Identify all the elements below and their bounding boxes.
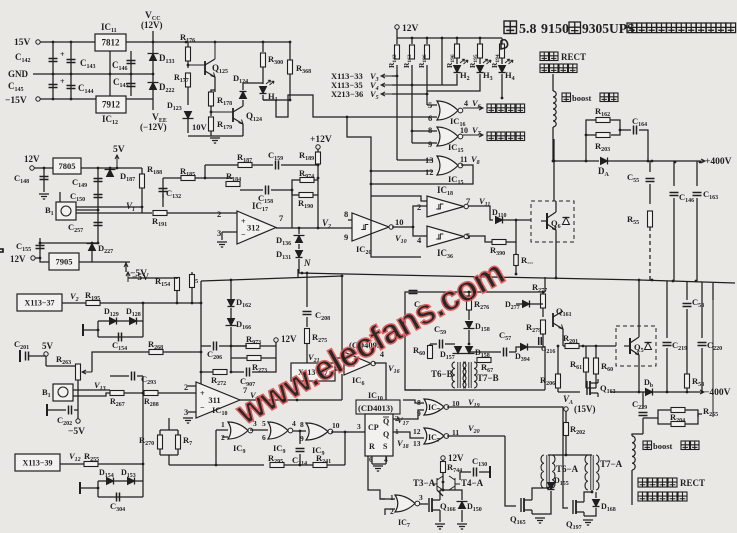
svg-text:C148: C148: [14, 173, 29, 185]
arrow -5V: [124, 263, 128, 272]
wire C257 rail: [97, 210, 99, 243]
wire R55 down dashed: [649, 227, 651, 280]
svg-text:3: 3: [184, 407, 188, 417]
regulator 7905: [49, 253, 79, 270]
svg-text:3: 3: [419, 493, 423, 502]
capacitor C143: [67, 60, 76, 63]
zener D157: [453, 347, 464, 354]
svg-text:−15V: −15V: [5, 96, 27, 106]
wire D124 link: [243, 82, 263, 84]
wire fb net: [291, 195, 293, 228]
wire R268 left: [92, 352, 149, 372]
wire B1 rail: [59, 192, 61, 210]
wire C163 down: [696, 198, 698, 281]
wire Q124 emit: [242, 124, 244, 136]
resistor R277: [541, 294, 546, 308]
svg-text:(−12V): (−12V): [140, 122, 167, 132]
ground Q195: [535, 518, 545, 523]
wire D277 left: [516, 303, 522, 305]
svg-text:6: 6: [262, 433, 266, 442]
svg-text:D158: D158: [475, 322, 490, 333]
wire osc fb: [216, 429, 228, 431]
resistor R194: [500, 44, 505, 58]
resistor R142: [395, 45, 400, 59]
wire R176 lead: [187, 42, 189, 47]
svg-text:D187: D187: [120, 171, 135, 183]
svg-text:V10: V10: [395, 233, 407, 245]
wire IC4 out: [392, 226, 413, 228]
svg-text:C143: C143: [80, 58, 96, 70]
wire C149 rail: [97, 168, 99, 210]
svg-text:V17: V17: [397, 415, 410, 427]
svg-text:boost: boost: [572, 93, 592, 103]
wire H1-R368 join: [263, 99, 290, 101]
regulator 7805: [53, 158, 81, 174]
wire pair l2: [658, 418, 671, 424]
svg-text:−5V: −5V: [68, 427, 85, 437]
capacitor C146b: [670, 193, 679, 196]
wire IC9a out: [250, 429, 268, 431]
wire R201 out: [579, 345, 616, 347]
resistor R154: [175, 278, 180, 291]
svg-text:B1: B1: [45, 205, 54, 217]
wire 311b-IC6: [341, 374, 343, 400]
svg-text:2: 2: [217, 209, 221, 219]
capacitor C163: [693, 193, 702, 196]
wire clamp2 gnd: [80, 487, 98, 489]
svg-text:V18: V18: [397, 438, 409, 450]
ground Q166: [435, 524, 445, 529]
wire D187: [109, 168, 111, 169]
wire coil to bus: [552, 127, 554, 161]
svg-text:12V: 12V: [24, 154, 40, 164]
wire Q195 src: [532, 491, 551, 514]
svg-text:V8: V8: [471, 154, 480, 166]
wire R206 to Q163: [558, 391, 580, 393]
transformer T6-A: [541, 455, 555, 488]
svg-text:R188: R188: [147, 164, 162, 176]
wire Q161 base: [542, 308, 544, 317]
resistor R273: [247, 356, 261, 361]
svg-text:10: 10: [460, 126, 468, 135]
wire pin3: [222, 231, 237, 233]
wire out IC17: [276, 227, 346, 229]
resistor R127: [186, 73, 191, 87]
wire R194 lead: [501, 38, 503, 44]
wire bus after DA: [608, 160, 700, 162]
wire C155 rail: [39, 238, 41, 258]
scan artifact left edge: [0, 249, 3, 252]
capacitor C132: [159, 189, 168, 192]
wire ff to IC7c: [368, 456, 385, 499]
resistor R390: [492, 240, 506, 245]
resistor Rdots: [514, 255, 519, 266]
capacitor C219: [663, 343, 672, 346]
svg-text:7805: 7805: [59, 161, 76, 171]
zener D158b: [464, 347, 475, 354]
svg-text:R300: R300: [268, 54, 283, 66]
svg-text:IC12: IC12: [102, 114, 118, 126]
box around CD4013 label: [356, 400, 400, 414]
wire right edge v1: [712, 300, 714, 417]
wire R194 right: [314, 179, 318, 181]
wire Q125 emit: [214, 77, 216, 92]
svg-text:R255: R255: [703, 406, 718, 418]
wire R206 bot: [557, 388, 559, 392]
svg-text:C130: C130: [472, 456, 487, 468]
wire VA lead: [565, 411, 567, 422]
wire N right frame: [544, 277, 546, 292]
wire edge drop above: [712, 283, 714, 300]
wire Vcc drop: [152, 31, 154, 42]
wire R973 out: [260, 345, 276, 347]
label CJK zheng boost: [562, 93, 571, 102]
svg-text:H3: H3: [483, 70, 493, 82]
capacitor C150: [94, 195, 103, 198]
diode Q5 body: [645, 343, 652, 350]
wire pair out: [698, 414, 702, 417]
arrow -400V: [696, 390, 704, 394]
svg-text:N: N: [303, 258, 311, 268]
capacitor C142: [49, 59, 58, 62]
wire R288 out: [158, 392, 201, 394]
resistor R195: [478, 44, 483, 58]
svg-text:C208: C208: [315, 310, 330, 322]
resistor R300: [261, 53, 266, 67]
IGBT Q6: [541, 209, 556, 233]
capacitor C148: [40, 177, 49, 180]
resistor R272: [213, 370, 227, 375]
LED H2: [454, 66, 461, 73]
wire div bot r: [177, 449, 179, 455]
resistor R189: [316, 152, 321, 164]
wire C219 bot: [666, 348, 668, 392]
svg-text:D394: D394: [515, 352, 530, 363]
ground bar C201: [19, 350, 21, 362]
wire R178-Q124: [210, 106, 212, 116]
diode D168: [593, 500, 600, 507]
wire C202: [47, 409, 66, 411]
svg-text:V2: V2: [70, 291, 79, 303]
MOSFET Q166: [429, 496, 440, 514]
gate IC7c: [395, 495, 415, 512]
wire H2 feed: [412, 80, 457, 85]
svg-text:D277: D277: [505, 300, 520, 311]
wire mid rail: [109, 51, 111, 96]
wire Q125 base: [188, 64, 205, 66]
svg-text:RECT: RECT: [561, 52, 586, 62]
svg-text:C202: C202: [57, 415, 72, 427]
wire Q124 base: [211, 111, 233, 113]
wire 311b out: [240, 399, 342, 401]
wire R744 bot: [442, 472, 444, 490]
capacitor C57: [504, 348, 507, 357]
diode D150: [457, 502, 468, 509]
resistor R7: [176, 435, 181, 449]
wire Vcc rail down: [152, 42, 154, 99]
wire R188 lead: [141, 168, 143, 176]
svg-text:R7: R7: [183, 435, 192, 447]
title CJK tail: [627, 23, 736, 33]
wire C214 drop: [299, 431, 301, 444]
regulator IC12 7912: [96, 96, 126, 113]
resistor R295: [270, 463, 284, 468]
wire ff pin6: [371, 456, 373, 464]
svg-text:C257: C257: [68, 222, 83, 234]
svg-text:9150: 9150: [541, 22, 569, 37]
svg-text:10: 10: [395, 217, 404, 227]
wire R179 bot: [210, 131, 212, 136]
svg-text:C229: C229: [632, 399, 647, 411]
resistor R276: [467, 296, 472, 310]
svg-text:C159: C159: [268, 150, 283, 162]
svg-text:R60: R60: [413, 345, 425, 357]
svg-text:DA: DA: [598, 166, 610, 178]
svg-text:C57: C57: [499, 330, 511, 342]
resistor R267: [110, 391, 124, 396]
svg-text:C304: C304: [110, 501, 125, 513]
svg-text:R288: R288: [144, 397, 159, 408]
diode D155: [548, 483, 555, 490]
svg-text:H2: H2: [460, 70, 470, 82]
wire ff gnd: [372, 463, 386, 465]
resistor R203: [596, 133, 610, 138]
wire 5v drop: [45, 356, 47, 366]
wire inv frame: [371, 196, 421, 257]
arrow V5: [381, 92, 392, 96]
wire combo right: [639, 130, 648, 161]
resistor R163: [410, 45, 415, 59]
wire R189 lead: [317, 149, 319, 152]
wire R195 out: [100, 302, 201, 304]
terminal ring VA: [564, 407, 568, 411]
label CJK zhengchong: [487, 104, 525, 113]
wire clamp drop: [298, 228, 300, 234]
svg-text:+: +: [200, 389, 205, 398]
diode D131: [296, 251, 303, 258]
resistor R744: [441, 462, 446, 473]
svg-text:4: 4: [464, 99, 468, 108]
watermark www.elecfans.com: [230, 254, 511, 433]
wire B1b to R: [73, 393, 110, 396]
wire clamp2 up: [142, 393, 144, 464]
wire combo left: [586, 120, 596, 161]
label CJK laizi RECT bot: [638, 478, 677, 487]
capacitor C144: [67, 86, 76, 89]
svg-text:−: −: [200, 403, 205, 412]
zener D123: [183, 112, 194, 119]
LED H1: [260, 87, 267, 94]
svg-text:IC15: IC15: [448, 142, 463, 154]
svg-text:7912: 7912: [102, 100, 121, 110]
wire C146 down: [673, 198, 675, 281]
svg-text:IC6: IC6: [352, 375, 364, 387]
title figure number CJK tu: [504, 21, 517, 34]
svg-text:V16: V16: [388, 363, 400, 375]
svg-text:C146: C146: [679, 192, 694, 204]
diode D394: [521, 344, 528, 351]
wire boost top lead: [552, 74, 554, 91]
gate IC15b: [437, 156, 458, 175]
wire R191 out: [167, 212, 204, 214]
wire C130 left: [460, 472, 471, 480]
diode Db: [646, 389, 653, 396]
wire R390 out: [506, 220, 516, 242]
wire to C164: [620, 129, 631, 131]
svg-text:(12V): (12V): [141, 20, 163, 30]
gate IC6: [344, 352, 371, 375]
wire inv feed top: [413, 206, 427, 227]
wire C229 bot: [642, 418, 644, 434]
wire D227 rail: [91, 243, 93, 262]
wire cap rail3: [130, 51, 132, 96]
svg-text:C150: C150: [70, 191, 85, 203]
capacitor C220: [698, 343, 707, 346]
resistor R187: [238, 163, 252, 168]
wire div down: [168, 455, 170, 465]
wire R279 bot: [542, 334, 544, 346]
LED H3: [477, 66, 484, 73]
wire -5v top rail: [40, 242, 98, 244]
ground Q197: [583, 520, 593, 525]
terminal ring 5v b: [44, 352, 48, 356]
svg-text:+: +: [60, 77, 65, 86]
wire frame N: [405, 292, 421, 390]
wire R5 top: [191, 272, 193, 275]
svg-text:R163: R163: [402, 54, 413, 68]
svg-text:D110: D110: [492, 208, 506, 219]
wire Q6 up: [553, 139, 555, 201]
wire C208 drop: [306, 273, 308, 307]
label CJK fu boost: [643, 441, 652, 450]
svg-text:Q: Q: [383, 417, 389, 426]
wire C202 right: [74, 409, 78, 411]
wire V16 down: [385, 376, 387, 400]
wire H3 feed: [427, 80, 480, 91]
resistor R270: [158, 435, 163, 449]
terminal X113-37: [17, 294, 62, 311]
wire div top: [160, 429, 178, 431]
terminal ring 12V mid: [274, 338, 278, 342]
wire inv frame top: [371, 196, 427, 201]
resistor R55: [648, 211, 653, 227]
resistor R5: [190, 275, 195, 288]
svg-text:T6−B: T6−B: [431, 369, 453, 379]
wire C57 to D394: [516, 347, 520, 352]
svg-text:R368: R368: [296, 63, 311, 75]
svg-text:5V: 5V: [42, 341, 54, 351]
wire C58 drop: [686, 281, 688, 300]
wire R154 bot: [176, 291, 178, 303]
terminal ring -15V: [36, 97, 40, 101]
svg-text:C164: C164: [632, 116, 647, 128]
wire IC7a in8: [403, 400, 424, 403]
wire IC9b out: [293, 430, 306, 432]
ground 311b: [183, 418, 193, 423]
wire R255 out: [98, 463, 143, 465]
wire C263 drop: [142, 376, 144, 393]
wire loop l2: [200, 303, 202, 352]
wire R273 vert: [230, 346, 232, 372]
svg-text:+400V: +400V: [705, 157, 732, 167]
wire V8 feedback: [371, 165, 473, 184]
diode D277: [523, 301, 530, 308]
resistor R60: [594, 358, 599, 374]
diode Q6 body: [563, 218, 570, 225]
diode D162: [228, 300, 235, 307]
label CJK zhengliuqiao bot: [638, 492, 687, 501]
wire C158 out: [271, 189, 292, 191]
wire Q166 gnd: [439, 514, 441, 522]
svg-text:IC20: IC20: [356, 244, 371, 256]
arrow V6 out: [463, 106, 483, 110]
svg-text:7: 7: [279, 213, 284, 223]
svg-text:C149: C149: [72, 177, 87, 189]
wire clamp2 vert: [142, 464, 144, 497]
wire y178: [163, 177, 181, 179]
wire R5 bot: [191, 288, 193, 303]
wire 12v bus: [397, 37, 502, 39]
wire cap rail1: [52, 42, 54, 99]
wire D124 top: [242, 83, 244, 90]
svg-text:C155: C155: [16, 241, 31, 253]
wire D123 bot: [187, 119, 189, 133]
wire buf in8: [348, 219, 352, 221]
wire B1 out1: [76, 206, 142, 208]
svg-text:X113−39: X113−39: [23, 458, 53, 467]
svg-text:D155: D155: [554, 476, 569, 487]
svg-text:C145: C145: [113, 77, 129, 89]
diode D154: [107, 478, 114, 485]
svg-text:(15V): (15V): [574, 404, 596, 414]
svg-text:R275: R275: [312, 332, 327, 344]
wire C229 top: [642, 392, 644, 408]
diode D153: [128, 478, 135, 485]
resistor R179: [209, 117, 214, 131]
wire -15V bus: [40, 98, 96, 100]
capacitor C145: [49, 85, 58, 88]
wire stair branch in12: [371, 170, 433, 172]
capacitor C214: [296, 449, 305, 452]
terminal ring 12V top: [395, 25, 399, 29]
crystal B1b: [53, 384, 73, 401]
wire IC7c in: [380, 498, 385, 500]
ground bar C130: [489, 466, 491, 478]
svg-text:D227: D227: [98, 243, 113, 255]
wire D158a bot: [468, 330, 470, 344]
wire ff qb to IC7b: [393, 432, 424, 438]
wire pot top: [46, 365, 78, 367]
svg-text:R270: R270: [139, 435, 154, 447]
zener D136: [294, 236, 305, 243]
terminal ring 15V: [36, 40, 40, 44]
wire C208-R275: [306, 317, 308, 327]
wire mesh v2: [411, 65, 413, 143]
capacitor C208: [303, 312, 312, 315]
svg-text:3: 3: [217, 228, 221, 238]
wire bus to DA: [553, 160, 599, 162]
ground IC17: [217, 242, 227, 247]
svg-text:7905: 7905: [56, 257, 73, 267]
svg-text:T3−A: T3−A: [413, 478, 436, 488]
wire R267-R288: [124, 392, 144, 394]
wire H4 feed: [501, 80, 503, 98]
wire C148 rail: [43, 168, 45, 192]
svg-text:12V: 12V: [10, 254, 26, 264]
resistor R206: [556, 374, 561, 388]
wire y165 drop: [204, 165, 206, 178]
wire fb drop: [291, 190, 293, 195]
